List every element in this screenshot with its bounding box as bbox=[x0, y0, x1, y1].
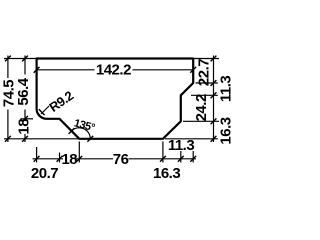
dimension line 142.2 bbox=[37, 69, 194, 71]
extension lines for bottom dimension chain bbox=[37, 142, 194, 163]
extension line left at y=118.8 bbox=[21, 118, 34, 120]
svg-text:24.2: 24.2 bbox=[193, 94, 210, 121]
svg-text:16.3: 16.3 bbox=[217, 117, 234, 144]
angle dimension arc 135 bbox=[72, 128, 91, 139]
tick of leader R9.2 bbox=[39, 109, 45, 115]
extension lines right side bbox=[165, 83, 219, 139]
svg-text:18: 18 bbox=[61, 151, 77, 168]
ticks of angle arc bbox=[69, 128, 94, 142]
svg-text:22.7: 22.7 bbox=[195, 59, 212, 86]
svg-text:20.7: 20.7 bbox=[31, 165, 58, 182]
dimension line 56.4 / 18 (left column 2) bbox=[24, 56, 26, 143]
svg-text:R9.2: R9.2 bbox=[46, 88, 76, 115]
tick marks bbox=[5, 56, 216, 162]
extension line top left bbox=[4, 58, 37, 60]
svg-text:142.2: 142.2 bbox=[96, 61, 131, 78]
svg-text:11.3: 11.3 bbox=[218, 76, 235, 103]
dimension line bottom chain bbox=[33, 158, 197, 160]
ticks left columns bbox=[5, 136, 11, 142]
ticks right column bbox=[211, 80, 217, 86]
svg-text:56.4: 56.4 bbox=[15, 77, 32, 105]
ticks bottom chain bbox=[34, 156, 40, 162]
extension line top right bbox=[193, 58, 219, 60]
leader R9.2 bbox=[41, 106, 49, 114]
svg-text:18: 18 bbox=[15, 119, 32, 135]
extension line bottom-left at y=138.8 bbox=[4, 138, 78, 140]
svg-text:16.3: 16.3 bbox=[153, 165, 180, 182]
ticks on top extension bbox=[5, 56, 11, 62]
svg-text:76: 76 bbox=[113, 151, 129, 168]
ticks 142.2 bbox=[34, 67, 40, 73]
dimension line right column (22.7 / 24.2 stack) bbox=[213, 56, 215, 143]
svg-text:11.3: 11.3 bbox=[168, 137, 195, 154]
dimension line 74.5 (left column 1) bbox=[7, 56, 9, 143]
svg-text:135°: 135° bbox=[73, 117, 96, 134]
profile outline bbox=[37, 59, 194, 139]
